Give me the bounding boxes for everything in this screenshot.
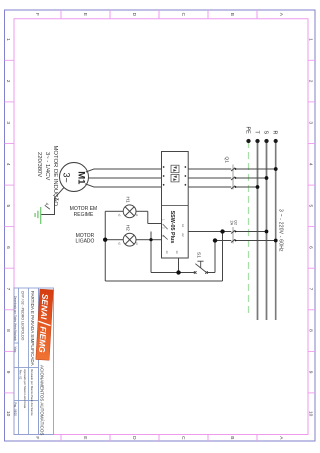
svg-text:6: 6 (5, 246, 11, 249)
svg-text:Pag.: 06/20: Pag.: 06/20 (14, 403, 18, 417)
svg-text:LIGADO: LIGADO (76, 239, 95, 245)
svg-text:5: 5 (5, 204, 11, 207)
svg-text:C: C (180, 13, 186, 17)
svg-text:Q2: Q2 (234, 220, 238, 225)
svg-text:S1: S1 (196, 252, 202, 258)
svg-text:R: R (272, 131, 278, 135)
svg-text:6: 6 (307, 246, 313, 249)
svg-text:3~: 3~ (62, 172, 72, 182)
svg-text:2: 2 (307, 80, 313, 83)
svg-text:REGIME: REGIME (74, 212, 94, 218)
svg-text:T: T (253, 131, 259, 135)
svg-text:1: 1 (5, 38, 11, 41)
svg-text:Aprovado por: Mauro Lúcio Cost: Aprovado por: Mauro Lúcio Costa (23, 369, 27, 408)
svg-text:5: 5 (307, 204, 313, 207)
svg-text:A: A (278, 13, 284, 17)
svg-text:220/380V: 220/380V (36, 152, 42, 177)
svg-text:B: B (229, 13, 235, 16)
svg-text:3 ~ - 220V - 60Hz: 3 ~ - 220V - 60Hz (277, 209, 283, 252)
svg-text:8: 8 (5, 329, 11, 332)
svg-text:10: 10 (307, 411, 313, 417)
svg-text:9: 9 (307, 371, 313, 374)
svg-text:F: F (34, 13, 40, 16)
svg-text:CFP / 02 - PEDRO LEOPOLDO: CFP / 02 - PEDRO LEOPOLDO (21, 291, 25, 341)
svg-text:M1: M1 (76, 171, 87, 185)
svg-text:C: C (180, 436, 186, 440)
svg-text:2A: 2A (229, 221, 233, 226)
svg-text:A: A (278, 436, 284, 440)
svg-text:Q1: Q1 (224, 157, 230, 164)
svg-text:SENAI: SENAI (39, 294, 50, 321)
svg-text:2: 2 (5, 80, 11, 83)
svg-text:B: B (229, 436, 235, 439)
svg-text:1: 1 (307, 38, 313, 41)
svg-text:F: F (34, 436, 40, 439)
svg-text:E: E (82, 13, 88, 16)
svg-text:x2: x2 (118, 214, 121, 217)
svg-text:10: 10 (5, 411, 11, 417)
svg-text:ACIONAMENTOS AUTOMÁTICOS: ACIONAMENTOS AUTOMÁTICOS (40, 365, 46, 435)
svg-text:7: 7 (307, 288, 313, 291)
svg-text:3: 3 (307, 121, 313, 124)
svg-text:x1: x1 (135, 242, 138, 245)
svg-text:4: 4 (307, 163, 313, 166)
svg-text:Desenhado por: Tadeu Vieira Ma: Desenhado por: Tadeu Vieira Machado (14, 296, 18, 341)
svg-text:7: 7 (5, 288, 11, 291)
svg-text:H1: H1 (124, 197, 130, 203)
svg-text:3~ - 1/4CV: 3~ - 1/4CV (44, 152, 50, 180)
svg-text:S: S (262, 131, 268, 135)
svg-text:H2: H2 (124, 225, 130, 231)
svg-text:E: E (82, 436, 88, 439)
svg-text:Revisado por: Marcos Paulo dos: Revisado por: Marcos Paulo dos Santos (30, 369, 34, 416)
svg-text:FIEMG: FIEMG (37, 326, 49, 353)
svg-text:PARTIDA E PARADA SIMPLIFICA: PARTIDA E PARADA SIMPLIFICADA (30, 291, 35, 366)
svg-text:Visto:: Visto: (14, 347, 18, 354)
svg-text:4: 4 (45, 203, 50, 206)
svg-text:SSW-05 Plus: SSW-05 Plus (169, 211, 175, 244)
svg-text:9: 9 (5, 371, 11, 374)
svg-text:x1: x1 (135, 214, 138, 217)
svg-text:PE: PE (244, 127, 250, 135)
svg-text:D: D (131, 436, 137, 440)
svg-text:x2: x2 (118, 242, 121, 245)
svg-text:D: D (131, 13, 137, 17)
svg-text:4: 4 (5, 163, 11, 166)
svg-text:8: 8 (307, 329, 313, 332)
svg-text:3: 3 (5, 121, 11, 124)
